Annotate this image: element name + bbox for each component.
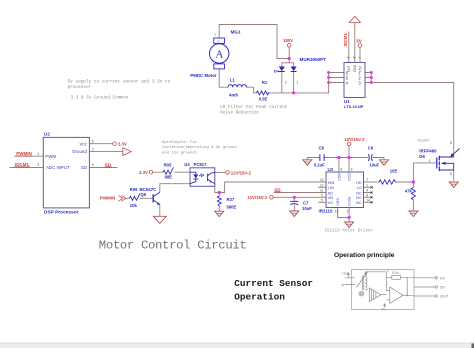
bottom window strip [0,343,474,348]
wire U4 collector to 12V [215,171,226,173]
hall element [359,291,364,296]
junction VSS-COM ground node [348,216,351,219]
svg-text:HIN: HIN [328,180,335,185]
svg-text:4: 4 [92,163,94,167]
svg-text:0v: 0v [382,308,386,312]
svg-text:1: 1 [37,152,39,156]
resistor 47k [405,188,416,200]
svg-text:10k: 10k [130,203,138,208]
svg-text:D6: D6 [419,154,425,159]
mosfet D6 IRFP460 [418,137,460,175]
wire U2 sd net [89,167,117,169]
svg-text:4: 4 [366,189,368,193]
title Operation principle [334,252,395,259]
svg-text:U3: U3 [328,167,334,172]
svg-text:A: A [215,49,223,61]
svg-text:SD: SD [105,162,112,167]
wire motor bottom to L1 [219,69,228,87]
ground (U3 COM) [345,222,354,228]
svg-text:-N: -N [347,56,350,60]
svg-text:1: 1 [366,183,368,187]
svg-text:processor: processor [68,85,92,90]
amp1 with hatch [369,288,381,302]
junction C7 tap on 12V wire [293,196,296,199]
svg-text:R05: R05 [164,162,172,167]
junction gate node 10E/47k [412,180,415,183]
svg-text:0.1uF: 0.1uF [314,163,325,168]
note Optocoupler text [162,140,237,155]
wire 47k to ground [412,182,414,211]
svg-text:VS: VS [328,200,334,205]
svg-text:Q6: Q6 [141,192,147,197]
power arrow IDCM1 (U1 top) [343,16,361,46]
wire Q6 collector to U4 cathode [160,184,190,193]
capacitor C9 10uF [368,146,380,168]
junction U1 right bus pin 2 [370,76,373,79]
wire R1 to U1 left bus [269,73,329,93]
ground (47k) [409,211,418,217]
junction VDD on 12V rail [337,156,340,159]
svg-text:PWM: PWM [45,154,56,159]
svg-text:Current Sensor: Current Sensor [234,278,313,289]
junction U1 left bus pin 6 [327,71,330,74]
motor MG1 [190,29,241,77]
capacitor C8 0.1uF [314,146,325,168]
svg-text:Vcc: Vcc [79,141,87,146]
svg-text:R37: R37 [227,197,235,202]
power 12V/15V-2 (U4 collector) [226,170,252,175]
svg-text:5: 5 [321,198,323,202]
power 5V (U1) [357,38,362,47]
wire mosfet source to ground [453,170,455,181]
wire U3 VDD VCC stubs [339,158,349,173]
op-amp U2 DSP Processor [37,131,94,215]
svg-text:5V: 5V [357,38,362,43]
wire 180V down to diode bracket [288,47,290,63]
svg-text:C9: C9 [368,146,374,151]
svg-text:VDD: VDD [336,173,341,181]
wire 10E to gate junction [396,163,437,182]
svg-text:10uF: 10uF [369,162,379,167]
no-connect X marks U3 right pins [371,186,373,203]
svg-text:IR2110: IR2110 [319,208,333,213]
ground (C8 left) [303,158,312,166]
power 12V/15V-2 (U3 VB) [247,195,273,200]
svg-text:+,: +, [359,56,362,60]
driver U3 IR2110 [319,167,373,214]
svg-text:Motor Control Circuit: Motor Control Circuit [99,239,247,253]
wire C7 tap [293,197,295,210]
power 3.3V (R05) [139,170,153,175]
svg-text:MUR3060PT: MUR3060PT [300,57,327,62]
wire 12V circle to VB pin [273,196,318,198]
svg-text:OUT: OUT [347,65,351,72]
operation principle diagram [345,270,438,310]
svg-text:MG1: MG1 [231,29,241,34]
note supply text [68,80,171,101]
junction VCC on 12V rail [347,156,350,159]
ground (mosfet source) [449,182,458,188]
svg-text:U2: U2 [44,131,50,136]
svg-text:10: 10 [320,178,324,182]
svg-text:Ground: Ground [72,149,87,154]
svg-text:Operation: Operation [234,292,285,303]
power 180V [283,38,293,47]
wire motor top loop [219,25,289,59]
svg-text:LR Filter For Peak Current: LR Filter For Peak Current [220,105,287,110]
svg-text:PC817: PC817 [194,162,207,167]
svg-text:VCC: VCC [347,173,352,181]
svg-text:3: 3 [351,168,353,172]
wire junction to HIN [219,182,318,193]
svg-text:IDCM1: IDCM1 [15,162,29,167]
svg-text:PMDC Motor: PMDC Motor [190,73,217,78]
svg-text:Mosfet: Mosfet [418,137,431,142]
svg-text:180V: 180V [283,38,293,43]
svg-text:2: 2 [92,147,94,151]
svg-text:1: 1 [297,81,299,85]
dual diode D4 MUR3060PT [274,57,326,84]
optocoupler U4 PC817 [184,162,215,186]
svg-text:C7: C7 [303,201,309,206]
offpage arrow U2 ground [123,148,131,156]
net label SD (U2) [105,162,113,167]
svg-text:OUT: OUT [440,294,449,299]
wire diode pins down [282,72,294,93]
wire U2 pwmin [14,155,43,157]
wire Q6 emitter to ground [159,204,161,216]
svg-text:3.3V: 3.3V [139,170,148,175]
svg-text:4mh: 4mh [229,93,238,98]
wire U3 left stubs [318,182,326,202]
svg-text:+10: +10 [342,272,348,276]
svg-text:12: 12 [320,183,324,187]
title Motor Control Circuit [99,239,247,253]
svg-text:OptiCoupler For: OptiCoupler For [162,140,197,145]
svg-text:10uF: 10uF [302,206,312,211]
svg-text:L1: L1 [230,77,236,82]
junction U1 left bus pin 5 [327,76,330,79]
primary input leads [345,278,356,285]
wire diode bracket [282,63,294,67]
junction U1 right bus pin 3 [370,81,373,84]
svg-text:3.3 & 5v Ground Common: 3.3 & 5v Ground Common [71,96,129,101]
junction U1 left bus pin 4 [327,81,330,84]
svg-text:2: 2 [285,81,287,85]
svg-text:IRFP460: IRFP460 [419,149,437,154]
wire U1 left pin rows [329,73,344,83]
svg-text:12V/15V-2: 12V/15V-2 [247,195,268,200]
svg-text:VSS: VSS [335,198,340,206]
box [352,270,415,310]
svg-text:13: 13 [335,209,339,213]
junction U4 emitter / R37 [218,191,221,194]
capacitor C7 10uF [290,201,312,212]
wire 12V rail with C8 C9 [307,157,384,159]
wire U4 emitter to junction [215,184,220,196]
svg-text:Operation principle: Operation principle [334,252,395,259]
power 3.3V (U2 vcc) [113,142,127,147]
svg-text:0V: 0V [440,275,445,280]
svg-text:Isolation(seperating 3.3v grou: Isolation(seperating 3.3v ground [162,145,237,150]
svg-text:PWMIN: PWMIN [16,151,32,156]
wire U1 top pins [349,22,360,62]
output leads [414,278,435,296]
net label PWMIN with chevron (Q6) [100,195,126,201]
svg-text:11: 11 [320,189,324,193]
svg-text:5V: 5V [440,285,445,290]
wire pwmin chevron to R06 [126,197,130,199]
wire U2 ground to offpage arrow [89,151,122,153]
svg-text:+: + [214,33,216,37]
wire 12V supply drop [348,146,350,158]
op-amp [390,287,403,304]
svg-text:PWMIN: PWMIN [100,195,116,200]
note filter text [220,105,287,116]
svg-text:S: S [450,172,452,176]
ground (C9 right) [380,158,389,166]
svg-text:10E: 10E [390,168,398,173]
wire U3 right stubs [364,182,372,202]
wire R06 to Q6 base [140,197,154,199]
svg-text:7: 7 [366,178,368,182]
svg-text:9: 9 [341,168,343,172]
note IR2110 Motor Driver [324,228,373,233]
svg-text:DSP Processor: DSP Processor [44,210,79,216]
transformer core and secondary [362,276,364,291]
wire U1 right pin rows [365,73,371,83]
svg-text:LTS-15-NP: LTS-15-NP [344,104,364,109]
svg-text:HO: HO [356,180,362,185]
svg-text:68E: 68E [165,175,173,180]
wire L1 to R1 [247,87,257,93]
svg-text:2: 2 [347,209,349,213]
svg-text:IR2110 Motor Driver: IR2110 Motor Driver [324,228,373,233]
ground (C7) [290,211,299,217]
power 12V/15V-2 (U3 top) [344,137,365,146]
svg-text:5: 5 [92,139,94,143]
wire HO to 10E [372,181,380,183]
svg-text:ADC INPUT: ADC INPUT [46,165,70,170]
junction U1 right bus pin 1 [370,71,373,74]
RM resistor [392,275,401,279]
junction diode cathode / R1 output [292,91,295,94]
svg-text:D4: D4 [274,68,280,73]
wire SD net to U3 [274,192,318,194]
svg-text:12V/15V-2: 12V/15V-2 [231,170,252,175]
svg-text:0.5E: 0.5E [259,97,268,102]
title Current Sensor Operation [234,278,313,302]
svg-text:1: 1 [429,159,431,163]
sensor U1 LTS-15-NP [344,56,365,109]
wire U1 right bus to mosfet drain [371,73,453,158]
resistor R06 10k [130,187,141,208]
svg-text:6: 6 [321,193,323,197]
resistor R37 560E [217,196,236,210]
svg-text:SD: SD [81,165,87,170]
svg-text:560E: 560E [227,205,237,210]
wire U2 vcc to 3.3V [89,143,112,145]
resistor R1 0.5E [257,80,270,102]
feedback wires [365,272,386,295]
svg-text:3.3V: 3.3V [118,142,127,147]
svg-text:R1M: R1M [392,271,399,275]
inductor L1 4mh [228,77,246,97]
svg-text:C8: C8 [319,146,325,151]
net label SD (U3) [274,187,282,192]
svg-text:12V/15V-2: 12V/15V-2 [344,137,365,142]
svg-text:SD: SD [274,187,281,192]
resistor 10E (gate) [379,168,397,184]
svg-text:IDCM1: IDCM1 [343,33,348,47]
svg-text:8: 8 [366,193,368,197]
resistor R05 68E [163,162,174,179]
svg-text:5v supply to current sensor an: 5v supply to current sensor and 3.3v to [68,80,171,85]
svg-text:R06: R06 [130,187,138,192]
svg-text:Noise Reduction: Noise Reduction [220,111,259,116]
wire U2 idcm1 [10,167,44,169]
net label PWMIN (U2) [16,151,32,156]
svg-text:and 12v ground): and 12v ground) [162,150,197,155]
svg-text:NC: NC [356,200,362,205]
svg-text:+5V: +5V [358,65,362,72]
wire U3 VSS COM to ground [338,208,350,222]
wire R37 to ground [218,206,220,211]
junction 180V node [288,57,291,60]
svg-text:47k: 47k [405,188,413,193]
svg-text:3: 3 [37,163,39,167]
net label IDCM1 (U2) [15,162,31,167]
ground (Q6 emitter) [153,216,166,223]
svg-text:U4: U4 [184,162,190,167]
transistor Q6 BC547C [140,187,160,205]
svg-text:GND: GND [353,64,357,72]
svg-text:Ip: Ip [342,283,345,287]
ground (R37) [215,211,224,217]
svg-text:R1: R1 [262,80,268,85]
svg-text:COM: COM [347,197,352,206]
svg-text:14: 14 [366,198,370,202]
wire 3.3V to R05 to U4 [153,171,190,173]
